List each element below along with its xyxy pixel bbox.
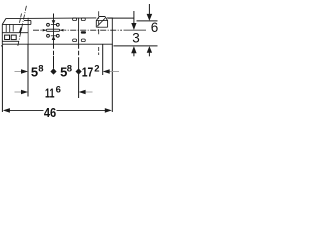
svg-text:8: 8 (38, 64, 43, 75)
svg-text:3: 3 (132, 30, 140, 45)
svg-text:11: 11 (45, 86, 55, 101)
svg-text:6: 6 (151, 20, 159, 35)
svg-text:17: 17 (82, 64, 94, 79)
svg-text:46: 46 (44, 105, 56, 120)
svg-text:8: 8 (67, 64, 72, 75)
svg-text:6: 6 (56, 85, 61, 96)
svg-text:5: 5 (31, 64, 38, 79)
svg-text:2: 2 (94, 64, 99, 75)
